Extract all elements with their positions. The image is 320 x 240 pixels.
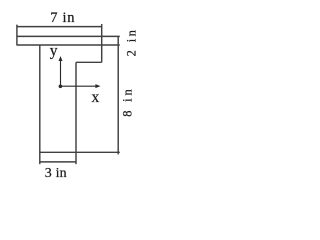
stem bottom edge + extension to right dim <box>40 151 120 153</box>
flange top edge + extension to right dims <box>17 35 120 37</box>
dimension line 3 in <box>40 161 76 163</box>
svg-text:8 in: 8 in <box>121 86 135 116</box>
y axis <box>60 59 62 86</box>
svg-text:3 in: 3 in <box>45 166 67 181</box>
x axis arrowhead <box>95 84 100 88</box>
origin dot <box>59 85 63 89</box>
left extension tick + flange left edge <box>16 25 18 46</box>
y axis arrowhead <box>59 56 63 61</box>
svg-text:2 in: 2 in <box>125 28 139 57</box>
svg-text:y: y <box>50 42 58 59</box>
x axis <box>61 85 96 87</box>
stem left edge + extension below <box>39 45 41 164</box>
svg-text:x: x <box>92 89 100 106</box>
stem right edge + extension below <box>75 62 77 164</box>
step bottom edge <box>76 61 102 63</box>
flange bottom edge / divider + extension <box>17 44 120 46</box>
right extension tick + section right edge <box>101 24 103 62</box>
right dimension line shared by 2 in and 8 in <box>117 36 119 154</box>
svg-text:7 in: 7 in <box>50 10 75 26</box>
dimension line 7 in <box>17 26 102 28</box>
